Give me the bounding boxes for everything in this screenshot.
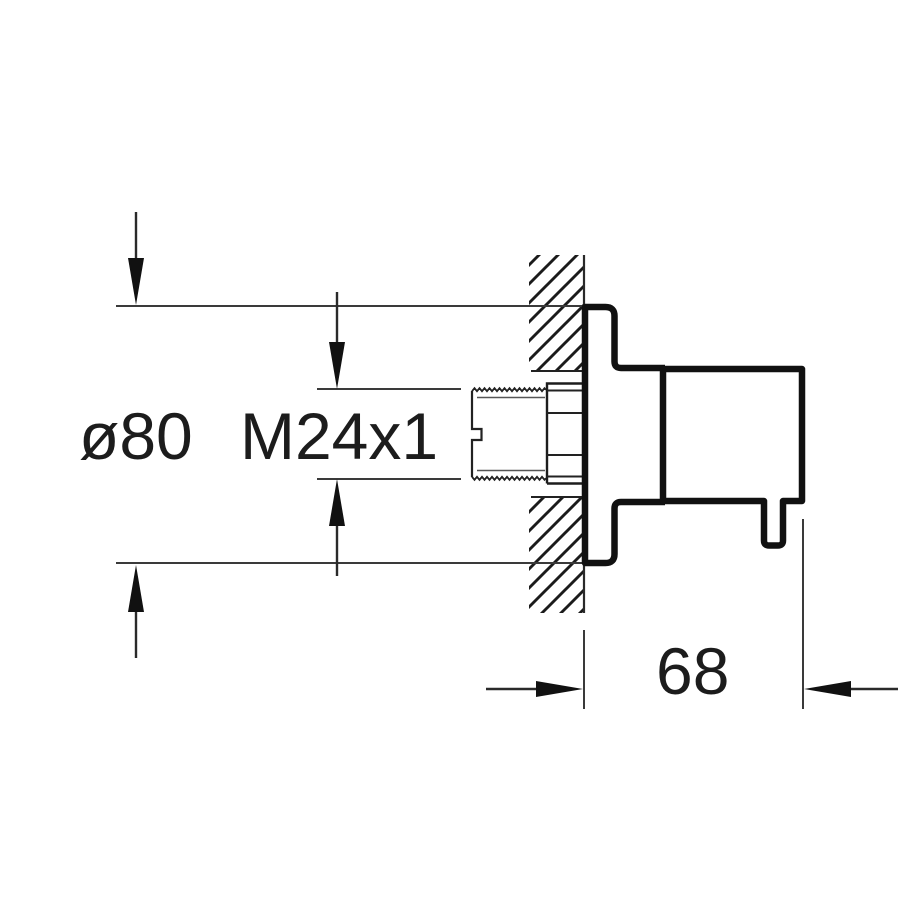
- dimension line M24x1 bottom: [317, 478, 461, 480]
- thread crest top zigzag: [472, 388, 546, 391]
- wall hatch upper boundary line: [531, 370, 583, 372]
- wall hatch lower section: [529, 498, 584, 613]
- label ø80: [79, 403, 193, 469]
- wall hatch upper section: [529, 255, 584, 371]
- dimension line M24x1 top: [317, 388, 461, 390]
- M24x1 arrow up: [329, 479, 345, 576]
- dimension line ø80 bottom extension: [116, 562, 583, 564]
- escutcheon flange outline: [585, 307, 665, 563]
- M24x1 arrow down: [329, 292, 345, 389]
- dimension line ø80 top extension: [116, 305, 583, 307]
- wall surface line: [583, 255, 585, 613]
- 68 arrow left-pointing: [804, 681, 898, 697]
- thread crest bottom zigzag: [472, 477, 546, 480]
- hex nut flat line 3: [547, 454, 583, 456]
- hex nut flat line 1: [547, 390, 583, 392]
- label M24x1: [240, 403, 438, 469]
- valve body outline with foot: [663, 369, 802, 546]
- hex nut flat line 4: [547, 476, 583, 478]
- wall hatch lower boundary line: [531, 496, 583, 498]
- thread root line top: [477, 397, 545, 399]
- label 68: [656, 638, 729, 704]
- ø80 arrow up: [128, 565, 144, 658]
- hex nut flat line 2: [547, 412, 583, 414]
- 68 arrow right-pointing: [486, 681, 583, 697]
- 68 extension line right: [802, 519, 804, 709]
- thread root line bottom: [477, 470, 545, 472]
- ø80 arrow down: [128, 212, 144, 305]
- 68 extension line left: [583, 630, 585, 709]
- threaded pipe left edge with slot: [472, 391, 482, 477]
- hex nut outline: [547, 384, 583, 484]
